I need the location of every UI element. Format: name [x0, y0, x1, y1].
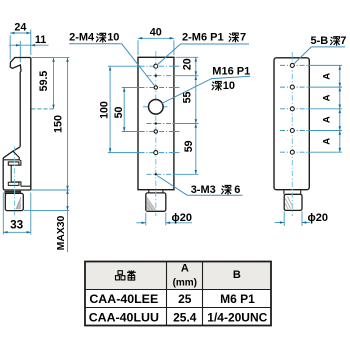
right center line — [291, 52, 293, 216]
svg-text:M16 P1: M16 P1 — [212, 65, 250, 77]
svg-text:24: 24 — [14, 21, 26, 33]
svg-text:A: A — [322, 116, 333, 123]
svg-text:55: 55 — [182, 92, 194, 104]
svg-text:2-M4: 2-M4 — [69, 32, 95, 44]
middle plate — [138, 57, 174, 189]
svg-text:(mm): (mm) — [173, 278, 197, 289]
left view clamp (bottom) — [3, 147, 31, 190]
svg-text:11: 11 — [35, 34, 46, 46]
dimension 150 — [32, 57, 70, 59]
svg-text:40: 40 — [150, 26, 162, 38]
svg-text:7: 7 — [240, 31, 246, 43]
svg-text:CAA-40LEE: CAA-40LEE — [89, 292, 158, 306]
svg-text:A: A — [322, 94, 333, 101]
B hole 3 — [290, 107, 294, 111]
B hole 2 — [290, 85, 294, 89]
block hatch triangle — [16, 197, 21, 209]
svg-text:2-M6 P1: 2-M6 P1 — [182, 31, 224, 43]
dimension 59.5 — [32, 57, 52, 59]
B hole 5 — [290, 150, 294, 154]
middle center line — [155, 51, 157, 216]
right view holes 5-B — [280, 64, 308, 66]
svg-text:ϕ20: ϕ20 — [172, 212, 192, 224]
B hole 1 — [290, 63, 294, 67]
middle phi20 dimension — [145, 213, 147, 226]
dimension MAX30 — [24, 209, 70, 211]
svg-text:3-M3: 3-M3 — [191, 184, 216, 196]
A spacing chain — [339, 65, 341, 152]
svg-text:7: 7 — [340, 35, 346, 47]
dimension 40 top — [137, 40, 139, 55]
M3 hole 3 — [155, 173, 157, 175]
dimension 33 — [2, 193, 4, 235]
right lower block — [284, 194, 302, 210]
svg-text:25.4: 25.4 — [173, 310, 197, 324]
svg-text:33: 33 — [10, 217, 24, 231]
right phi20 dimension — [283, 211, 285, 226]
middle neck — [149, 190, 163, 193]
top edge extension right — [176, 56, 199, 58]
table header hinban — [116, 271, 125, 280]
svg-text:A: A — [322, 138, 333, 145]
svg-text:MAX30: MAX30 — [56, 215, 67, 250]
right plate — [274, 58, 309, 190]
svg-text:5-B: 5-B — [311, 35, 329, 47]
M4 hole top — [154, 86, 157, 89]
B hole 4 — [290, 129, 294, 133]
svg-text:10: 10 — [107, 32, 119, 44]
M3 hole 2 — [155, 122, 157, 124]
dimension 50 (left chain) — [123, 88, 125, 132]
left view lower block — [5, 193, 23, 210]
svg-text:20: 20 — [182, 58, 194, 70]
svg-text:59.5: 59.5 — [38, 71, 50, 92]
svg-text:M6 P1: M6 P1 — [220, 292, 255, 306]
middle block hatch — [146, 197, 156, 211]
dimension 24 top — [9, 35, 11, 59]
svg-text:6: 6 — [234, 184, 240, 196]
M16 center hole — [149, 100, 164, 115]
M6 hole bottom — [154, 151, 158, 155]
dimension 100 (left chain) — [109, 66, 111, 152]
M6 hole top — [154, 64, 158, 68]
svg-text:10: 10 — [223, 80, 235, 92]
M3 hole 1 — [155, 75, 157, 77]
svg-text:50: 50 — [113, 107, 125, 119]
right chain 20/55/59 — [195, 57, 197, 174]
right neck — [284, 190, 301, 194]
middle lower block — [146, 193, 166, 211]
svg-text:150: 150 — [52, 115, 64, 133]
left view center line — [14, 147, 16, 216]
svg-text:A: A — [322, 73, 333, 80]
svg-text:25: 25 — [178, 292, 192, 306]
right block hatch marks — [285, 197, 292, 210]
left view part outline: hook and plate — [10, 58, 31, 147]
svg-text:ϕ20: ϕ20 — [308, 212, 328, 224]
svg-text:A: A — [181, 262, 189, 274]
svg-text:1/4-20UNC: 1/4-20UNC — [207, 310, 267, 324]
dimension 11 — [19, 41, 21, 63]
svg-text:CAA-40LUU: CAA-40LUU — [89, 311, 159, 325]
svg-text:59: 59 — [183, 140, 195, 152]
clamped rail strip (hatched) — [5, 191, 21, 193]
hole cross dashes — [140, 65, 173, 67]
svg-text:100: 100 — [99, 101, 111, 119]
M4 hole bottom — [154, 130, 157, 133]
svg-text:B: B — [233, 269, 241, 281]
